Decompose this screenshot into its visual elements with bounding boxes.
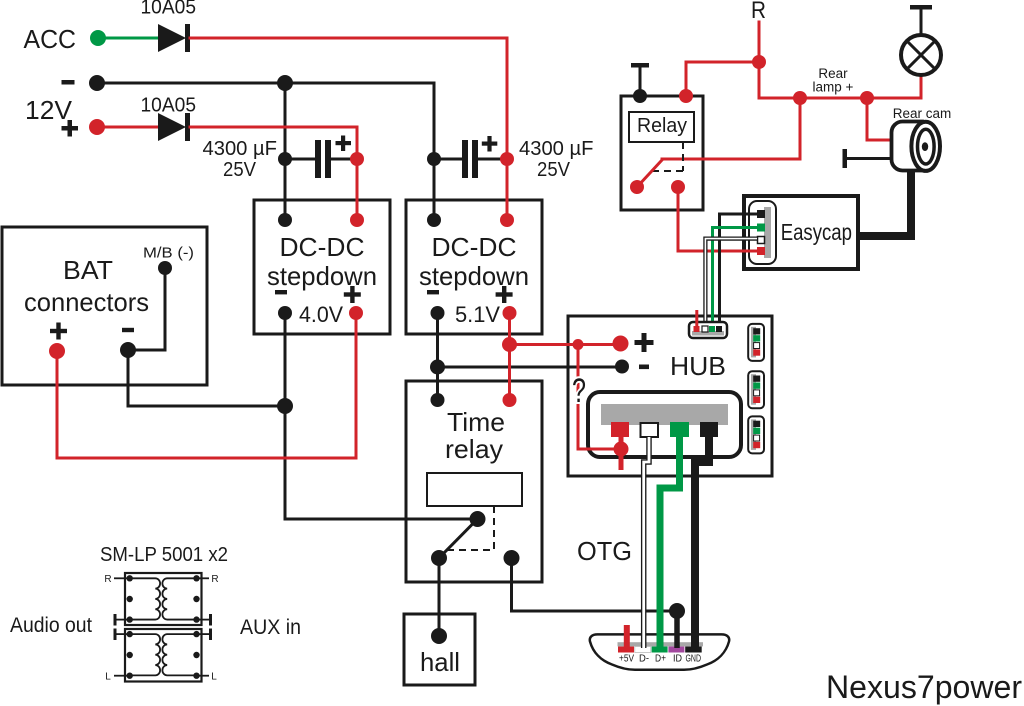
node 12V plus terminal (89, 119, 105, 135)
Easycap connector shell (749, 201, 776, 264)
svg-text:4300 µF: 4300 µF (203, 138, 278, 160)
wire time relay NO to OTG ID (512, 558, 678, 611)
svg-text:ID: ID (673, 654, 682, 665)
time relay NO contact (504, 550, 520, 566)
junction R / relay coil branch (752, 55, 766, 69)
value label 4300 uF 25V (C2) (519, 138, 594, 181)
wire HUB black ground to OTG GND (695, 437, 709, 650)
node HUB plus terminal (613, 336, 629, 352)
svg-text:DC-DC: DC-DC (280, 232, 365, 262)
rear cam lens ellipses (911, 122, 940, 171)
junction HUB plus branch (573, 339, 584, 350)
junction time relay plus / HUB plus (502, 337, 517, 352)
HUB minus sign (639, 365, 649, 370)
BAT plus sign (50, 323, 67, 340)
Easycap pin green (757, 224, 765, 232)
svg-text:BAT: BAT (63, 255, 113, 285)
wire 12V minus bus (97, 83, 434, 216)
U2 output plus sign (496, 286, 513, 303)
relay actuator dashed link (652, 142, 683, 171)
label Rear lamp + (813, 66, 854, 95)
module Easycap box (744, 196, 858, 269)
junction OTG ID blob (669, 603, 685, 648)
wire branch to relay switch input (662, 98, 800, 159)
OTG pin D- (white) (635, 647, 651, 653)
OTG pin D+ (green) (652, 647, 668, 653)
wire 12V plus from D2 to DC-DC 4.0V plus input (190, 127, 357, 216)
wire Easycap white to HUB connector (705, 239, 757, 328)
transformer T2 box (125, 629, 202, 682)
U2 plus input pin (500, 213, 514, 227)
capacitor C2 4300uF plates (434, 140, 507, 178)
USB A port shell (588, 392, 741, 457)
svg-text:Relay: Relay (637, 115, 687, 137)
junction C1 right (350, 152, 364, 166)
red stub above uplink connector (695, 310, 698, 329)
U2 plus output pin (503, 306, 517, 320)
junction BAT minus / U1 minus (277, 398, 293, 414)
wire HUB white data to OTG D- (644, 437, 649, 648)
node BAT plus terminal (49, 343, 65, 359)
svg-text:10A05: 10A05 (141, 95, 197, 117)
U1 minus input pin (278, 213, 292, 227)
svg-text:Rear cam: Rear cam (893, 106, 952, 121)
wire R down to lamp bus (758, 22, 761, 98)
svg-text:Audio out: Audio out (10, 614, 92, 637)
svg-text:GND: GND (686, 654, 702, 665)
module U2 DC-DC stepdown 5.1V box (406, 200, 542, 334)
U1 plus input pin (350, 213, 364, 227)
USB port pin red (611, 422, 629, 437)
svg-text:stepdown: stepdown (419, 261, 529, 291)
U2 output minus sign (427, 290, 439, 294)
relay antenna (631, 63, 649, 96)
USB port pin white (641, 423, 659, 437)
HUB indicator block 3 (748, 416, 764, 453)
wire U2 plus to HUB plus (510, 343, 621, 346)
junction time relay minus / HUB minus (430, 360, 445, 375)
svg-text:HUB: HUB (670, 351, 726, 381)
T2 stub L right (197, 672, 218, 683)
node 12V minus terminal (89, 75, 105, 91)
wire Easycap black to HUB connector (720, 214, 758, 328)
relay switch common contact (630, 180, 644, 194)
svg-text:R: R (211, 574, 218, 585)
T1 stub bottom-right with bar (197, 614, 213, 626)
12V minus sign (62, 80, 75, 85)
T2 stub top-right with bar (197, 629, 213, 641)
U1 plus output pin (349, 306, 363, 320)
wire U2 plus output to time relay (508, 313, 511, 400)
OTG pin labels (619, 654, 701, 665)
USB port pin black (700, 422, 718, 437)
svg-text:4.0V: 4.0V (299, 302, 343, 327)
wire Easycap green to HUB connector (713, 228, 758, 329)
svg-text:AUX in: AUX in (240, 616, 301, 639)
wire U1 minus output down to time relay common (285, 313, 478, 519)
svg-text:Easycap: Easycap (781, 219, 852, 245)
module Time relay box (406, 381, 542, 582)
svg-text:hall: hall (420, 647, 460, 677)
svg-text:R: R (751, 0, 766, 24)
junction lamp bus / rear cam branch (860, 91, 874, 105)
BAT minus sign (122, 328, 134, 332)
svg-text:4300 µF: 4300 µF (519, 138, 594, 160)
U1 output plus sign (344, 286, 361, 303)
wire lamp bus horizontal (759, 97, 921, 100)
rear cam body (892, 122, 923, 171)
module HUB box (568, 316, 772, 476)
time relay NC contact (431, 550, 447, 566)
time relay switch arm (439, 519, 478, 558)
svg-text:Time: Time (447, 407, 505, 437)
transformer T2 windings (130, 634, 197, 675)
HUB uplink pin green (709, 326, 715, 332)
OTG pin GND (black) (685, 647, 702, 653)
T1 stub bottom-left with bar (114, 614, 130, 626)
U2 minus input pin (427, 213, 441, 227)
svg-text:OTG: OTG (577, 536, 632, 566)
rear cam antenna stub (843, 149, 892, 168)
wire junction down to DC-DC 4.0V minus input (284, 83, 287, 216)
wire time relay NC to hall (438, 558, 441, 636)
svg-text:+5V: +5V (619, 654, 634, 665)
wire U2 minus output to time relay (436, 313, 439, 400)
T1 stub R left (104, 574, 129, 585)
T1 stub R right (197, 574, 219, 585)
node ACC terminal (green) (90, 30, 106, 46)
wire branch to rear cam plus (867, 98, 891, 140)
HUB plus sign (635, 333, 654, 352)
module hall box (404, 614, 475, 685)
wire ACC red from D1 to DC-DC 5.1V input column (190, 38, 507, 216)
OTG pin +5V (red) (618, 647, 634, 653)
svg-text:Nexus7power: Nexus7power (826, 669, 1022, 705)
lamp antenna (910, 5, 932, 35)
Easycap pin white (758, 237, 765, 244)
OTG plug outline (590, 634, 729, 669)
svg-text:ACC: ACC (24, 24, 77, 54)
wire M/B to BAT minus (128, 268, 165, 350)
svg-text:?: ? (572, 372, 586, 410)
wire HUB plus branch down to USB port VCC (578, 345, 621, 450)
wire R branch to relay coil plus (686, 62, 759, 96)
HUB uplink pin white (702, 326, 708, 332)
module U1 DC-DC stepdown 4.0V box (254, 200, 390, 334)
Easycap connector gray strip (764, 207, 771, 258)
wire BAT plus to U1 plus output (57, 313, 356, 458)
svg-text:L: L (211, 672, 217, 683)
node time relay plus input (503, 393, 517, 407)
OTG pin ID (purple) (668, 647, 684, 653)
time relay inner box (427, 473, 522, 506)
wire lamp to bus (920, 75, 923, 98)
wire 12V plus to diode D2 (97, 126, 159, 129)
svg-text:L: L (105, 672, 111, 683)
node hall pin (431, 628, 447, 644)
T1 terminals (127, 575, 200, 623)
node M/B pin (158, 261, 172, 275)
relay switch arm (637, 160, 662, 187)
U2 minus output pin (431, 306, 445, 320)
svg-text:DC-DC: DC-DC (432, 232, 517, 262)
module Relay box (621, 96, 703, 210)
U1 output minus sign (275, 290, 287, 294)
junction 12V minus / cap1 branch (277, 75, 293, 91)
transformer T1 windings (130, 578, 197, 619)
junction C2 right (500, 152, 514, 166)
node time relay minus input (431, 393, 445, 407)
transformer T1 box (125, 573, 202, 625)
C2 plus sign (482, 136, 498, 152)
Easycap pin black (757, 210, 765, 218)
svg-text:D+: D+ (655, 654, 666, 665)
wire relay NO to Easycap power (678, 187, 757, 251)
OTG plug gray bar (618, 642, 704, 646)
capacitor C1 4300uF plates (285, 140, 357, 178)
wire BAT minus to ground bus (128, 350, 285, 406)
HUB uplink connector (689, 322, 727, 338)
node BAT minus terminal (120, 342, 136, 358)
svg-text:10A05: 10A05 (141, 0, 197, 19)
U1 minus output pin (278, 306, 292, 320)
svg-text:SM-LP 5001 x2: SM-LP 5001 x2 (100, 544, 228, 566)
svg-text:12V: 12V (25, 95, 73, 125)
junction C2 left (427, 152, 441, 166)
USB A port gray tongue (601, 404, 728, 425)
relay switch NO contact (671, 180, 685, 194)
svg-text:5.1V: 5.1V (455, 302, 500, 327)
+5V unconnected stub (624, 625, 630, 647)
node HUB minus terminal (615, 360, 629, 374)
node relay coil plus pin (679, 89, 693, 103)
svg-text:25V: 25V (223, 159, 257, 181)
HUB indicator block 2 (748, 371, 764, 408)
USB port pin green (670, 422, 689, 437)
wire HUB green data to OTG D+ (660, 437, 680, 650)
module BAT connectors box (2, 227, 207, 385)
svg-text:R: R (104, 574, 111, 585)
wire rear cam video to Easycap (thick) (858, 171, 911, 236)
12V plus sign (62, 120, 79, 137)
junction lamp bus / switch branch (793, 91, 807, 105)
time relay common contact (470, 511, 486, 527)
svg-text:25V: 25V (537, 159, 571, 181)
node red pin junction (614, 437, 629, 470)
relay label box (629, 112, 694, 142)
wire U2 minus to HUB minus (438, 366, 623, 369)
svg-text:M/B (-): M/B (-) (143, 245, 194, 262)
svg-text:stepdown: stepdown (267, 261, 377, 291)
wire ACC green to diode D1 (98, 37, 159, 40)
HUB uplink pin red (694, 326, 700, 332)
svg-text:relay: relay (445, 434, 503, 464)
HUB indicator block 1 (748, 324, 764, 361)
node relay coil minus pin (633, 89, 647, 103)
value label 4300 uF 25V (C1) (203, 138, 278, 181)
T2 stub top-left with bar (114, 629, 130, 641)
junction C1 left (278, 152, 292, 166)
HUB uplink pin black (716, 326, 722, 332)
diode D2 10A05 (158, 113, 190, 141)
time relay dashed link (447, 506, 494, 550)
svg-text:lamp +: lamp + (813, 80, 854, 95)
lamp (rear lamp) symbol (901, 35, 941, 75)
diode D1 10A05 (158, 24, 190, 52)
T2 stub L left (105, 672, 129, 683)
Easycap pin red (757, 247, 765, 255)
svg-text:D-: D- (639, 654, 649, 665)
T2 terminals (127, 631, 200, 679)
C1 plus sign (336, 136, 352, 152)
svg-text:connectors: connectors (24, 287, 149, 317)
